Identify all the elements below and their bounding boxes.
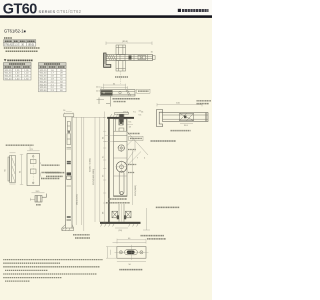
svg-text:(16): (16) <box>119 230 123 232</box>
svg-text:921-25: 921-25 <box>5 70 13 72</box>
D4 cylinder note text <box>151 140 177 142</box>
D1 caption <box>115 76 128 78</box>
svg-text:922-50: 922-50 <box>40 84 48 86</box>
D5 top cap <box>64 114 74 117</box>
header right tag <box>178 9 181 12</box>
drawing D4: vertical elevation assembly <box>93 111 179 232</box>
D4 cap stem dark <box>119 114 123 122</box>
svg-text:921-40: 921-40 <box>5 78 13 80</box>
svg-text:SERIES: SERIES <box>39 9 56 14</box>
D4 leader to cylinder texts <box>125 152 134 165</box>
page body background <box>0 17 212 300</box>
D6 side view <box>10 156 16 183</box>
D2 body <box>101 90 136 97</box>
D3 small dim <box>180 122 193 124</box>
label (1) spec <box>4 37 12 39</box>
D4 right dim line at bottom <box>146 208 148 230</box>
D5 lower tick <box>67 185 72 187</box>
svg-text:60: 60 <box>4 168 6 171</box>
D1 spindle bottom <box>116 61 126 72</box>
D7 slot <box>125 250 138 255</box>
D4 bottom cam hatch blocks <box>112 211 118 218</box>
D4 hatches under bottom bar <box>101 224 139 227</box>
D7 screw holes <box>119 251 122 254</box>
D6 front view <box>27 154 40 186</box>
D7 bolt dark <box>127 251 135 255</box>
D7 caption <box>119 269 142 271</box>
link centerline <box>120 71 122 84</box>
D5 left leader notes <box>46 172 65 174</box>
svg-text:922-25: 922-25 <box>40 70 48 72</box>
table T2 caption <box>4 59 7 61</box>
D4 deadbolt slot <box>119 171 124 195</box>
D5 dark dot <box>67 131 70 132</box>
D4 right dim vertical <box>132 150 134 205</box>
D4 boxed label <box>129 136 143 140</box>
D4 door frame bottom bar (dark) <box>100 222 141 224</box>
D3 caption <box>171 130 191 132</box>
D1 body <box>106 55 153 61</box>
D3 jamb channel <box>157 110 163 127</box>
svg-text:922-45: 922-45 <box>40 81 48 83</box>
D5 deadbolt blocks <box>67 172 71 175</box>
drawing D5: faceplate strip elevation <box>46 112 105 238</box>
D4 bottom stem <box>118 204 120 222</box>
D5 bottom caption <box>73 234 90 236</box>
D1 dim line 99.5 <box>106 42 152 46</box>
svg-text:1925(1800): 1925(1800) <box>135 185 137 196</box>
svg-text:(99.5): (99.5) <box>28 44 34 46</box>
page background top band <box>0 0 212 17</box>
svg-text:16: 16 <box>63 110 65 112</box>
D7 plate <box>117 247 146 259</box>
D5 foot <box>62 225 74 231</box>
drawing D1: GT61 plan section <box>104 41 156 77</box>
D7 screws note <box>141 235 165 237</box>
table T2 right <box>39 63 67 93</box>
D5 open window <box>67 134 71 145</box>
D3 screws note <box>197 100 212 102</box>
D6 screws note top <box>6 144 34 146</box>
D3 strike block hatched <box>180 113 194 120</box>
D4 overall height dim line <box>94 117 96 222</box>
D3 rail body <box>163 113 209 122</box>
svg-text:922-40: 922-40 <box>40 79 48 81</box>
D2 boxed label <box>137 89 151 93</box>
drawing D6: edge receiver views (left) <box>4 145 59 205</box>
footnote lines <box>3 260 103 282</box>
svg-text:922-35: 922-35 <box>40 76 48 78</box>
D3 rail end cap <box>204 113 206 122</box>
table T1 <box>4 40 36 47</box>
D4 cylinder circle <box>116 162 127 173</box>
D5 mid marks <box>67 147 72 149</box>
svg-text:1810(1925): 1810(1925) <box>77 194 79 205</box>
svg-text:921-35: 921-35 <box>5 76 13 78</box>
drawing D7: bottom strike plate <box>106 236 166 270</box>
svg-text:920(877-1080): 920(877-1080) <box>90 158 92 172</box>
D5 latch slot <box>67 122 70 131</box>
svg-text:922-30: 922-30 <box>40 73 48 75</box>
D1 latch tip <box>153 56 156 60</box>
D7 left dims <box>107 247 109 259</box>
D4 door frame top bar (dark) <box>107 117 134 119</box>
D7 dim lines above <box>117 239 146 241</box>
D4 hub circle <box>118 145 124 151</box>
header rule <box>0 15 212 18</box>
svg-text:(99.5): (99.5) <box>122 41 128 43</box>
D4 case body <box>114 119 128 196</box>
D5 hub squares <box>67 161 71 163</box>
svg-text:GT61/62: GT61/62 <box>4 44 14 46</box>
D4 case bottom lines <box>114 194 128 196</box>
D6 hat section <box>35 196 42 203</box>
D6 mid dim line <box>21 155 23 185</box>
svg-text:922-60: 922-60 <box>40 90 48 92</box>
D7 bottom dim <box>117 261 146 263</box>
D3 dim line 100 <box>157 103 202 106</box>
D1 spindle top <box>116 45 126 55</box>
D4 mortise hatch block <box>119 120 123 126</box>
drawing D3: frame corner section (right) <box>157 101 211 131</box>
D6 leader notes right <box>42 164 60 166</box>
svg-text:922-55: 922-55 <box>40 87 48 89</box>
D4 T-cam note <box>156 206 180 208</box>
svg-text:GT61/62-1■: GT61/62-1■ <box>4 28 26 33</box>
D4 (16) dim under bottom bar <box>115 227 128 229</box>
drawing D2: GT62 plan section <box>96 83 150 106</box>
D2 lower leaders <box>109 96 111 107</box>
table T1 notes <box>4 47 40 49</box>
D4 left dim chain <box>104 112 106 223</box>
D2 dim lines <box>101 84 128 89</box>
D4 case T-cap <box>115 112 129 114</box>
svg-text:1925(1800-2000): 1925(1800-2000) <box>93 169 95 185</box>
D4 tiny text rows below case <box>108 198 127 200</box>
D5 long dim verticals <box>75 117 77 225</box>
D5 body rails <box>65 117 67 229</box>
D1 face bracket <box>104 53 111 67</box>
D5 bottom marks <box>67 216 71 218</box>
svg-text:921-30: 921-30 <box>5 73 13 75</box>
table T2 left <box>4 63 32 81</box>
svg-text:GT61/GT62: GT61/GT62 <box>57 9 82 14</box>
D4 door frame left stile (dark) <box>108 117 109 223</box>
